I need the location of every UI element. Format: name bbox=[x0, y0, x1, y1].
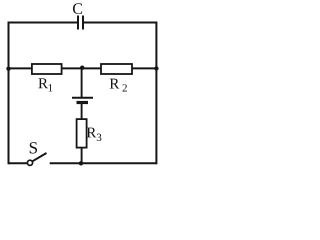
battery short thick plate bbox=[77, 101, 89, 104]
resistor R3 bbox=[77, 119, 87, 148]
wire top-left segment bbox=[9, 22, 78, 24]
wire bottom-left to switch bbox=[9, 162, 28, 164]
resistor R1 label bbox=[38, 78, 52, 91]
capacitor C plates bbox=[78, 16, 83, 30]
wire bottom from switch to right corner bbox=[50, 162, 157, 164]
wire middle row bbox=[9, 67, 157, 69]
battery long plate bbox=[72, 97, 93, 99]
junction node right middle bbox=[154, 66, 158, 70]
junction node bottom middle bbox=[79, 161, 83, 165]
capacitor label C bbox=[73, 3, 82, 14]
wire right side bbox=[155, 22, 157, 165]
wire middle branch upper bbox=[81, 68, 83, 98]
switch S contact circle bbox=[27, 160, 32, 165]
junction node left middle bbox=[6, 67, 10, 71]
resistor R2 bbox=[101, 64, 132, 74]
resistor R3 label bbox=[87, 128, 102, 141]
junction node middle top bbox=[80, 66, 84, 70]
wire middle branch between battery and R3 bbox=[81, 103, 83, 119]
resistor R2 label bbox=[110, 79, 127, 92]
wire top-right segment bbox=[84, 22, 157, 24]
switch S blade bbox=[33, 153, 47, 161]
switch label S bbox=[30, 142, 37, 153]
wire middle branch lower bbox=[81, 148, 83, 164]
resistor R1 bbox=[32, 64, 62, 74]
wire left side bbox=[8, 22, 10, 165]
